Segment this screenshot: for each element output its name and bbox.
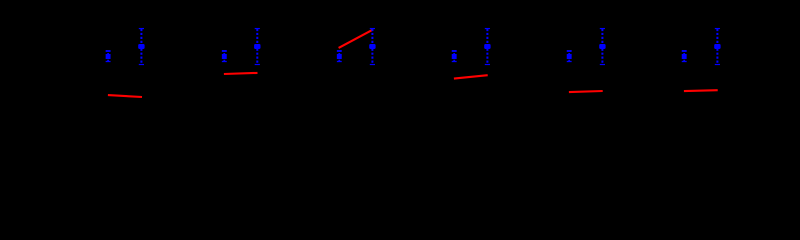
panel 6 red fit line [684, 89, 718, 92]
panel 6 right errorbar (blue circle marker, dotted error line, caps) [714, 28, 720, 65]
panel 4 right errorbar (blue circle marker, dotted error line, caps) [484, 28, 490, 65]
panel 1 left errorbar (blue square marker, dotted error line, caps) [106, 50, 111, 62]
panel 5 right errorbar (blue circle marker, dotted error line, caps) [599, 28, 605, 65]
panel 4 red fit line [454, 75, 488, 78]
panel 5 red fit line [569, 91, 603, 92]
panel 2 left errorbar (blue square marker, dotted error line, caps) [222, 50, 227, 62]
panel 3 red fit line [339, 30, 373, 48]
panel 2 right errorbar (blue circle marker, dotted error line, caps) [254, 28, 260, 65]
panel 1 right errorbar (blue circle marker, dotted error line, caps) [138, 28, 144, 65]
panel 6 left errorbar (blue square marker, dotted error line, caps) [682, 50, 687, 62]
panel 5 left errorbar (blue square marker, dotted error line, caps) [567, 50, 572, 62]
panel 4 left errorbar (blue square marker, dotted error line, caps) [452, 50, 457, 62]
panel 3 left errorbar (blue square marker, dotted error line, caps) [337, 50, 342, 62]
panel 2 red fit line [224, 73, 258, 74]
panel 3 right errorbar (blue circle marker, dotted error line, caps) [369, 28, 375, 65]
panel 1 red fit line [108, 95, 142, 97]
